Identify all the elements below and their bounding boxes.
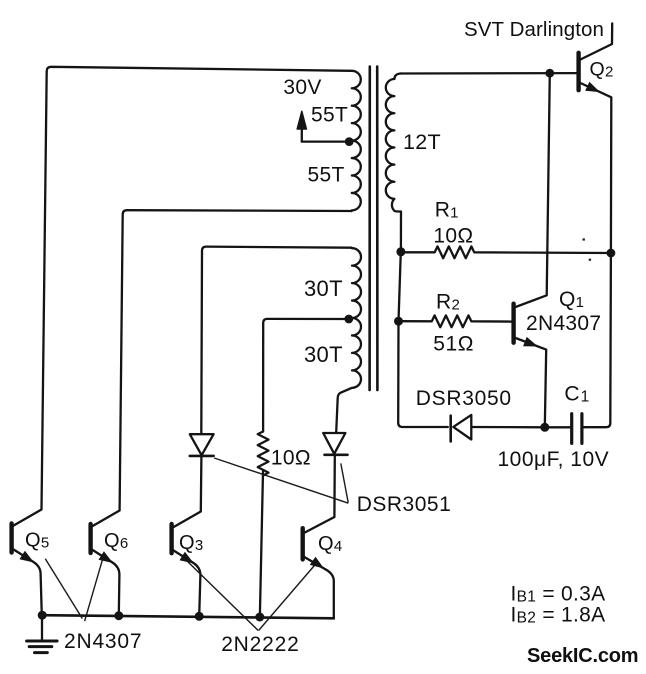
svg-text:51Ω: 51Ω [433,333,474,356]
svg-text:Q5: Q5 [25,530,50,552]
svg-text:2N4307: 2N4307 [64,630,142,653]
svg-text:SVT Darlington: SVT Darlington [464,18,604,41]
svg-text:Q4: Q4 [318,533,343,555]
svg-text:Q1: Q1 [559,288,584,311]
svg-text:55T: 55T [311,104,348,127]
svg-text:Q2: Q2 [590,59,614,81]
svg-text:Q6: Q6 [104,530,129,552]
svg-text:55T: 55T [308,163,345,186]
svg-text:2N4307: 2N4307 [526,312,601,335]
svg-text:DSR3051: DSR3051 [357,493,452,516]
svg-text:IB1 = 0.3A: IB1 = 0.3A [511,583,606,606]
svg-text:IB2 = 1.8A: IB2 = 1.8A [511,604,606,627]
svg-text:30T: 30T [304,342,343,367]
svg-text:12T: 12T [403,130,441,154]
svg-text:30T: 30T [304,276,343,301]
svg-text:10Ω: 10Ω [433,225,473,248]
svg-text:10Ω: 10Ω [271,447,311,470]
svg-text:Q3: Q3 [179,532,204,554]
svg-text:R1: R1 [435,198,459,221]
svg-text:30V: 30V [283,76,321,99]
svg-text:C1: C1 [564,383,590,406]
svg-text:R2: R2 [436,290,460,313]
svg-text:2N2222: 2N2222 [221,633,299,656]
svg-text:SeekIC.com: SeekIC.com [527,645,638,667]
svg-text:100μF, 10V: 100μF, 10V [498,448,610,471]
svg-text:DSR3050: DSR3050 [416,387,512,410]
